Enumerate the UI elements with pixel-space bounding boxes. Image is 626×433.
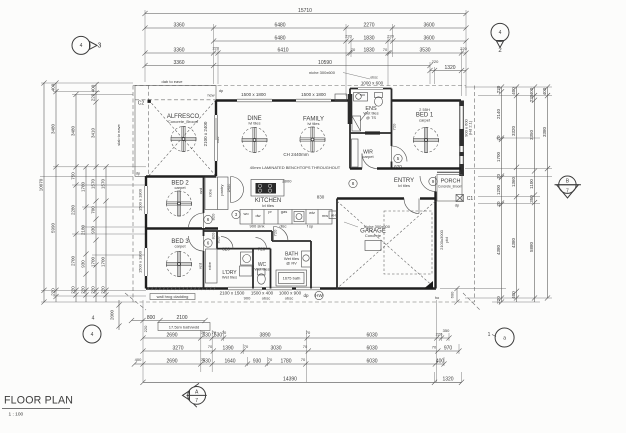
- svg-text:720: 720: [273, 229, 278, 236]
- svg-text:C1: C1: [467, 196, 474, 202]
- eave dashed outline: [133, 85, 466, 87]
- door bath: [274, 227, 289, 242]
- svg-text:1200: 1200: [496, 184, 501, 195]
- svg-text:900: 900: [244, 296, 251, 301]
- svg-text:2100: 2100: [176, 315, 187, 321]
- svg-text:3: 3: [98, 43, 102, 50]
- top dim row 15710: [145, 13, 466, 15]
- linen cupboard: [206, 249, 218, 283]
- svg-text:lvl tiles: lvl tiles: [307, 121, 319, 126]
- svg-text:7: 7: [566, 189, 569, 195]
- ens toilet: [375, 93, 383, 98]
- garage slab diagonals: [337, 201, 436, 289]
- svg-text:600: 600: [450, 291, 455, 298]
- svg-text:1500 x 1800: 1500 x 1800: [241, 92, 266, 97]
- svg-text:6480: 6480: [274, 22, 285, 28]
- svg-text:10070: 10070: [39, 178, 44, 191]
- svg-text:3380: 3380: [542, 126, 547, 137]
- top dim row 3360 10590: [145, 65, 430, 67]
- svg-text:6: 6: [207, 241, 210, 246]
- svg-text:C2: C2: [138, 101, 145, 107]
- entry door: [420, 176, 436, 192]
- AH unit: [329, 211, 338, 219]
- svg-text:220: 220: [529, 94, 534, 102]
- ceiling fan bed2: [167, 191, 192, 216]
- svg-text:70: 70: [303, 344, 308, 349]
- ens bump walls: [350, 88, 392, 90]
- right wall with window mullions: [459, 101, 461, 177]
- ldry trough: [241, 252, 254, 265]
- right dim col 220 2140 1700 1200 4380: [501, 87, 503, 302]
- svg-text:1830: 1830: [363, 35, 374, 41]
- door bed1: [392, 146, 408, 162]
- svg-text:6410: 6410: [277, 47, 288, 53]
- svg-text:dp: dp: [219, 88, 224, 93]
- svg-text:lvl tiles: lvl tiles: [398, 183, 410, 188]
- svg-text:1100: 1100: [529, 179, 534, 189]
- svg-text:ho: ho: [435, 295, 440, 300]
- door wc: [256, 238, 267, 249]
- bottom dim row 2690 530 1640 930 1780 6030 400: [134, 363, 444, 365]
- svg-text:4: 4: [80, 43, 83, 49]
- svg-text:400: 400: [529, 87, 534, 95]
- svg-text:500: 500: [360, 93, 365, 97]
- window 1500x1800 dine: [237, 99, 272, 102]
- svg-text:dw: dw: [255, 213, 260, 218]
- svg-text:70: 70: [496, 174, 501, 180]
- alfresco sliding door: [214, 115, 217, 161]
- bottom windows: [228, 287, 262, 290]
- svg-text:1320: 1320: [442, 377, 453, 383]
- ens shower: [352, 116, 361, 131]
- svg-text:1 : 100: 1 : 100: [9, 412, 24, 418]
- svg-text:70: 70: [351, 47, 356, 52]
- svg-text:4380: 4380: [511, 237, 516, 248]
- svg-text:17.5sm bath/wdd: 17.5sm bath/wdd: [169, 325, 199, 330]
- svg-text:hcw: hcw: [207, 93, 214, 98]
- svg-text:220: 220: [143, 325, 148, 332]
- svg-text:350: 350: [443, 328, 450, 333]
- bed1 bottom wall: [350, 167, 461, 169]
- svg-text:dp: dp: [136, 171, 141, 176]
- svg-text:3410: 3410: [91, 127, 96, 138]
- ens/wir divider: [350, 132, 392, 134]
- svg-text:400: 400: [511, 87, 516, 95]
- bottom dim row 3270 1390 3030 6030 970: [143, 350, 459, 352]
- svg-text:720: 720: [392, 123, 397, 130]
- svg-text:400: 400: [91, 84, 96, 92]
- svg-text:6: 6: [207, 217, 210, 222]
- svg-text:220: 220: [387, 34, 394, 39]
- svg-text:3480: 3480: [51, 123, 56, 134]
- svg-text:70: 70: [432, 345, 437, 350]
- svg-text:2280: 2280: [71, 204, 76, 215]
- porch box: [437, 175, 462, 202]
- bottom dim row 2690 530 530 3890 6030 220 350: [143, 337, 449, 339]
- svg-text:220: 220: [345, 34, 352, 39]
- svg-text:gas: gas: [281, 209, 287, 214]
- svg-text:220: 220: [81, 286, 86, 294]
- svg-text:220: 220: [91, 93, 96, 101]
- ceiling fan bed1: [414, 128, 439, 153]
- svg-text:220: 220: [496, 85, 501, 93]
- garage pier box: [365, 241, 381, 251]
- node C2: [148, 100, 151, 103]
- svg-text:3: 3: [235, 212, 238, 217]
- svg-text:3360: 3360: [173, 47, 184, 53]
- cladding note box: [150, 294, 195, 300]
- svg-text:70: 70: [496, 135, 501, 141]
- garage dashed panel area: [384, 211, 432, 274]
- ens west wall: [349, 89, 351, 169]
- bottom wall cladding hatch: [147, 287, 150, 290]
- svg-text:820: 820: [211, 213, 216, 220]
- svg-text:obsc: obsc: [285, 296, 293, 301]
- svg-text:2100 x 1500: 2100 x 1500: [220, 291, 245, 296]
- svg-text:350: 350: [529, 195, 534, 203]
- svg-text:70: 70: [306, 330, 311, 335]
- svg-text:Concrete_Broom: Concrete_Broom: [168, 119, 199, 124]
- svg-text:(Hd 2.1): (Hd 2.1): [468, 120, 473, 135]
- top dim row 3360 6410 1830 3530: [145, 52, 466, 54]
- svg-text:4: 4: [92, 316, 95, 322]
- svg-text:HW: HW: [315, 293, 323, 298]
- svg-text:750: 750: [71, 172, 76, 180]
- svg-text:70: 70: [222, 330, 227, 335]
- svg-text:1570: 1570: [91, 178, 96, 189]
- bed1 south wall brick band: [437, 171, 461, 173]
- svg-text:5: 5: [397, 156, 400, 161]
- ceiling fan alfresco: [171, 127, 196, 152]
- svg-text:5990: 5990: [51, 222, 56, 233]
- bed2 window: [144, 186, 147, 214]
- right dim col 400 3320 1360 4380: [516, 87, 518, 302]
- svg-text:lvl tiles: lvl tiles: [262, 203, 274, 208]
- svg-text:220: 220: [71, 286, 76, 294]
- bottom dim row 14390: [143, 381, 462, 383]
- svg-text:disc: disc: [279, 224, 286, 229]
- ens nib: [348, 94, 353, 124]
- svg-text:2000: 2000: [110, 309, 115, 320]
- svg-text:930: 930: [253, 358, 262, 364]
- svg-text:220: 220: [91, 286, 96, 294]
- ens vanity: [354, 93, 368, 102]
- svg-text:2180: 2180: [81, 224, 86, 235]
- svg-text:220: 220: [212, 46, 219, 51]
- svg-text:400: 400: [135, 357, 142, 362]
- svg-text:1675 bath: 1675 bath: [283, 276, 301, 281]
- svg-text:1780: 1780: [280, 358, 291, 364]
- svg-text:@ RV: @ RV: [286, 261, 297, 266]
- svg-text:1: 1: [488, 332, 491, 338]
- wir door: [362, 167, 377, 170]
- svg-text:obsc: obsc: [262, 296, 270, 301]
- garage right wall: [434, 192, 436, 289]
- svg-text:70: 70: [201, 357, 206, 362]
- svg-text:8: 8: [352, 181, 355, 186]
- top dimension extension lines: [144, 10, 146, 82]
- svg-text:wall hrcg cladding: wall hrcg cladding: [157, 294, 189, 299]
- svg-text:700: 700: [91, 206, 96, 214]
- svg-text:carpet: carpet: [174, 244, 186, 249]
- svg-text:2/620: 2/620: [227, 184, 231, 193]
- svg-text:f sp: f sp: [307, 224, 314, 229]
- svg-text:4380: 4380: [496, 244, 501, 255]
- bath vanity: [302, 251, 311, 267]
- top dim row 220 1320: [430, 70, 466, 72]
- HW unit circle: [315, 291, 324, 299]
- top dim row 3360 6480 2270 3600: [145, 27, 466, 29]
- svg-text:carpet: carpet: [362, 154, 374, 159]
- bottom dim extension lines: [142, 300, 144, 382]
- svg-text:70: 70: [496, 201, 501, 207]
- svg-text:6480: 6480: [274, 35, 285, 41]
- svg-text:a: a: [503, 335, 506, 341]
- svg-text:slab to eave: slab to eave: [116, 123, 121, 145]
- left dim col 3480 750 2280 2700: [75, 94, 77, 302]
- svg-text:Concrete_Broom: Concrete_Broom: [438, 185, 462, 189]
- svg-text:dab to eave: dab to eave: [162, 79, 184, 84]
- svg-text:3600: 3600: [423, 35, 434, 41]
- svg-text:1500 x 1800: 1500 x 1800: [138, 188, 143, 211]
- ldry/wc top wall: [217, 248, 253, 250]
- door ldry: [221, 237, 233, 249]
- marker top-left 4/3: [72, 36, 90, 54]
- svg-text:4: 4: [499, 30, 502, 36]
- bottom sub-dim 800 2100: [132, 320, 206, 322]
- svg-text:800: 800: [147, 315, 156, 321]
- right dim col 400 3350 1100 350 5880: [534, 87, 536, 302]
- svg-text:1320: 1320: [444, 65, 455, 71]
- svg-text:dp: dp: [455, 203, 460, 208]
- svg-text:2690: 2690: [166, 358, 177, 364]
- svg-text:1500 x 1800: 1500 x 1800: [301, 92, 326, 97]
- svg-text:3530: 3530: [419, 47, 430, 53]
- marker A/7 bottom: [188, 387, 206, 405]
- robe/pantry band: [205, 177, 228, 210]
- svg-text:3360: 3360: [173, 60, 184, 66]
- wall bed2 top: [146, 175, 216, 177]
- svg-text:7: 7: [195, 398, 198, 404]
- svg-text:carpet: carpet: [174, 185, 186, 190]
- wall alfresco/dine divider: [215, 101, 217, 177]
- svg-text:70: 70: [212, 330, 217, 335]
- ens door leaf: [360, 111, 368, 121]
- svg-text:FLOOR PLAN: FLOOR PLAN: [4, 395, 73, 407]
- hall west wall: [203, 177, 205, 289]
- svg-text:400: 400: [51, 83, 56, 91]
- svg-text:930: 930: [91, 226, 96, 234]
- svg-text:3350: 3350: [529, 129, 534, 140]
- kitchen island bench: [251, 180, 284, 197]
- svg-text:2270: 2270: [363, 22, 374, 28]
- svg-text:220: 220: [51, 288, 56, 296]
- window 1500x1800 family: [296, 99, 331, 102]
- svg-text:220: 220: [460, 46, 467, 51]
- svg-text:2690: 2690: [166, 332, 177, 338]
- svg-text:9: 9: [432, 179, 435, 184]
- svg-text:AH: AH: [331, 214, 336, 218]
- top wall: [216, 99, 350, 101]
- left dim col 1760 2180 930: [85, 167, 87, 302]
- svg-text:wo: wo: [243, 211, 249, 216]
- svg-text:4: 4: [91, 332, 94, 338]
- node C1: [456, 195, 464, 202]
- svg-text:220: 220: [496, 296, 501, 304]
- svg-text:3320: 3320: [511, 125, 516, 136]
- ceiling fan bed3: [167, 252, 192, 277]
- door bed3: [189, 236, 204, 251]
- svg-text:carpet: carpet: [419, 118, 431, 123]
- left dim col 10070: [43, 83, 45, 302]
- svg-text:2 55H: 2 55H: [419, 107, 430, 112]
- wc toilet: [258, 269, 266, 275]
- svg-text:2140: 2140: [496, 108, 501, 119]
- svg-text:niche 300x600: niche 300x600: [309, 70, 336, 75]
- svg-text:220: 220: [432, 59, 439, 64]
- svg-text:830: 830: [317, 195, 325, 200]
- svg-text:400: 400: [436, 358, 445, 364]
- svg-text:1570: 1570: [101, 178, 106, 189]
- svg-text:70: 70: [301, 357, 306, 362]
- svg-text:obsc: obsc: [370, 76, 378, 80]
- garage west wall: [336, 199, 338, 289]
- left dim col 70 1700: [105, 167, 107, 302]
- right dim col 400 3380: [547, 87, 549, 298]
- svg-text:Concrete: Concrete: [365, 233, 382, 238]
- bottom wall: [146, 287, 436, 289]
- svg-text:@ TS: @ TS: [366, 115, 377, 120]
- svg-text:40mm LAMINATED BENCHTOPS THROU: 40mm LAMINATED BENCHTOPS THROUGHOUT: [250, 165, 341, 170]
- alfresco slab diagonals: [149, 100, 217, 176]
- right dim extension lines: [465, 86, 552, 88]
- door bed2: [189, 213, 204, 228]
- svg-text:1830: 1830: [363, 47, 374, 53]
- svg-text:6030: 6030: [366, 345, 377, 351]
- svg-text:3360: 3360: [173, 22, 184, 28]
- svg-text:1760: 1760: [81, 181, 86, 192]
- wall bath east: [310, 241, 312, 289]
- svg-text:6030: 6030: [366, 358, 377, 364]
- svg-text:dp: dp: [303, 293, 309, 298]
- svg-text:2100 x 2400: 2100 x 2400: [203, 121, 208, 146]
- svg-text:robe: robe: [208, 188, 213, 197]
- bath/yard note box: [158, 323, 210, 331]
- svg-text:400: 400: [511, 291, 516, 299]
- wir shelf: [352, 139, 359, 167]
- svg-text:pld: pld: [444, 237, 449, 242]
- alfresco outline: [135, 85, 216, 176]
- garage corner fill: [424, 281, 433, 289]
- svg-text:220: 220: [101, 286, 106, 294]
- marker top-right 4/2: [491, 23, 509, 41]
- svg-text:70: 70: [383, 47, 388, 52]
- svg-text:robe: robe: [207, 261, 212, 270]
- svg-text:10590: 10590: [318, 60, 332, 66]
- svg-text:970: 970: [444, 345, 453, 351]
- svg-text:70: 70: [208, 344, 213, 349]
- svg-text:720: 720: [258, 247, 266, 252]
- wall wc/bath: [270, 249, 272, 289]
- svg-text:930: 930: [81, 260, 86, 268]
- svg-text:400: 400: [542, 87, 547, 95]
- left dim col 1570 700 930 1700: [95, 85, 97, 302]
- svg-text:CH 2440mm: CH 2440mm: [283, 152, 309, 157]
- svg-text:900 sink: 900 sink: [250, 224, 265, 229]
- svg-text:6030: 6030: [366, 332, 377, 338]
- bath top wall: [272, 240, 311, 242]
- svg-text:2700: 2700: [71, 255, 76, 266]
- svg-text:1500 x 1800: 1500 x 1800: [138, 250, 143, 273]
- svg-text:vzd: vzd: [198, 188, 203, 194]
- top dim row 6480 1830 3600: [214, 40, 466, 42]
- bed1 west wall: [391, 101, 393, 169]
- svg-text:14390: 14390: [283, 377, 297, 383]
- bath tub: [276, 270, 307, 286]
- left dim extension lines: [41, 82, 133, 84]
- kitchen south wall: [204, 230, 273, 232]
- wall wc west: [252, 249, 254, 289]
- svg-text:1360: 1360: [511, 176, 516, 187]
- svg-text:3890: 3890: [259, 332, 270, 338]
- left wall: [145, 176, 147, 289]
- svg-text:620: 620: [394, 164, 402, 169]
- svg-text:3270: 3270: [172, 345, 183, 351]
- svg-text:820: 820: [222, 247, 230, 252]
- hall double doors 2/620: [231, 177, 244, 190]
- svg-text:pantry: pantry: [219, 184, 224, 195]
- svg-text:1000 x 600: 1000 x 600: [361, 80, 384, 85]
- svg-text:15710: 15710: [298, 8, 312, 14]
- svg-text:3030: 3030: [270, 345, 281, 351]
- svg-text:820: 820: [216, 236, 221, 243]
- svg-text:70: 70: [268, 357, 273, 362]
- marker B/7 right: [559, 176, 576, 193]
- svg-text:1640: 1640: [224, 358, 235, 364]
- svg-text:wtz: wtz: [309, 210, 315, 215]
- svg-text:5880: 5880: [529, 241, 534, 252]
- bed3 window: [144, 248, 147, 276]
- svg-text:mw: mw: [322, 213, 328, 218]
- svg-text:1700: 1700: [496, 151, 501, 162]
- door garage/entry: [404, 199, 419, 214]
- ceiling fan family: [300, 127, 325, 152]
- svg-text:1390: 1390: [222, 345, 233, 351]
- svg-text:3480: 3480: [71, 125, 76, 136]
- svg-text:Wet tiles: Wet tiles: [222, 275, 237, 280]
- kitchen bench band: [240, 210, 332, 225]
- vertical 2000 dim: [118, 300, 120, 330]
- left dim col 400 3480 5990: [55, 83, 57, 302]
- svg-text:2000: 2000: [283, 179, 293, 184]
- svg-text:lvl tiles: lvl tiles: [248, 121, 260, 126]
- svg-text:3600: 3600: [423, 22, 434, 28]
- svg-text:1700: 1700: [101, 256, 106, 267]
- svg-text:70: 70: [244, 344, 249, 349]
- wall bed2/bed3 divider: [146, 227, 218, 229]
- 600 dim right of garage: [456, 289, 458, 303]
- svg-text:vzd: vzd: [198, 263, 203, 269]
- svg-text:1700: 1700: [91, 256, 96, 267]
- ceiling fan dine: [242, 128, 267, 153]
- entry south wall: [337, 197, 436, 199]
